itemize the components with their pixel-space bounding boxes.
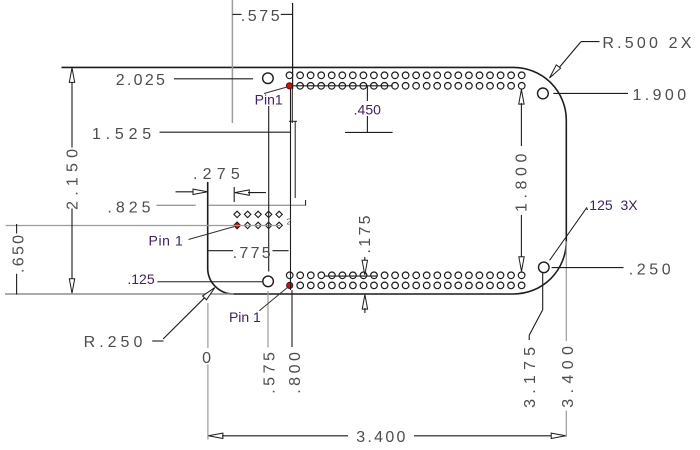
grid Pin 1 label and leader bbox=[149, 227, 234, 249]
svg-text:.825: .825 bbox=[107, 200, 154, 217]
gray extension line y=225.5 (.650 top, grid row2) bbox=[6, 225, 280, 227]
mounting hole bottom-right (.250) bbox=[539, 262, 550, 273]
svg-text:2.025: 2.025 bbox=[116, 72, 168, 89]
label .250 with leader bbox=[552, 261, 675, 278]
svg-text:.575: .575 bbox=[261, 349, 278, 394]
svg-text:3.400: 3.400 bbox=[560, 341, 577, 408]
svg-text:3.175: 3.175 bbox=[522, 342, 539, 408]
dimension 3.400 bottom bbox=[208, 429, 565, 446]
board outline with R.500 right corners and R.250 bottom-left corner bbox=[5, 67, 566, 294]
gray extension line x=208 (origin 0) bbox=[207, 303, 209, 440]
svg-text:.775: .775 bbox=[233, 245, 273, 262]
label R.500 2X with leader arrow bbox=[550, 35, 695, 78]
dimension .175 bbox=[325, 213, 378, 313]
svg-text:R.500 2X: R.500 2X bbox=[602, 35, 694, 52]
svg-text:.125: .125 bbox=[127, 271, 154, 287]
svg-text:.450: .450 bbox=[354, 102, 381, 118]
svg-text:.175: .175 bbox=[357, 213, 374, 253]
svg-text:.650: .650 bbox=[10, 233, 27, 273]
dimension 2.025 leader bbox=[116, 72, 253, 89]
dimension 1.525 reference line bbox=[92, 126, 393, 143]
svg-text:2.150: 2.150 bbox=[64, 144, 81, 210]
dimension .775 bbox=[209, 245, 289, 262]
svg-text:1.800: 1.800 bbox=[514, 149, 531, 212]
bottom header 2x23 through-holes bbox=[286, 272, 524, 289]
dimension 1.800 bbox=[514, 90, 531, 272]
gray extension line x=232 (top .575 left) bbox=[231, 0, 233, 123]
label R.250 with leader arrow bbox=[84, 288, 215, 351]
grid Pin 1 red diamond bbox=[234, 222, 241, 229]
small 2x5 grid of diamond holes bbox=[234, 211, 282, 228]
mounting hole bottom-left (.125) bbox=[263, 276, 274, 287]
svg-text:3.400: 3.400 bbox=[356, 429, 408, 446]
svg-text:.275: .275 bbox=[193, 166, 245, 183]
mounting hole top-left bbox=[263, 73, 274, 84]
gray extension line y=205 (.825) bbox=[156, 204, 306, 206]
svg-text:.800: .800 bbox=[287, 349, 304, 394]
top header 2x23 through-holes bbox=[286, 72, 525, 89]
dimension .650 bbox=[10, 224, 27, 295]
top header Pin1 label and leader bbox=[255, 87, 287, 272]
label .125 3X with leader bbox=[550, 197, 639, 260]
svg-text:Pin1: Pin1 bbox=[255, 91, 283, 107]
dimension .450 bbox=[293, 86, 393, 133]
dimension .275 bbox=[176, 166, 266, 202]
bottom header Pin 1 label and leader bbox=[229, 287, 288, 325]
dimension .575 top bbox=[232, 3, 292, 89]
label .125 bottom-left with leader bbox=[127, 271, 262, 287]
svg-text:R.250: R.250 bbox=[84, 334, 147, 351]
svg-text:Pin 1: Pin 1 bbox=[149, 233, 184, 249]
svg-text:.575: .575 bbox=[241, 8, 283, 25]
top header Pin1 red marker bbox=[286, 83, 292, 89]
dimension 2.150 vertical bbox=[64, 68, 81, 293]
extension line x=290.5 from top Pin1 to bottom (.800) bbox=[291, 89, 293, 347]
svg-text:.125 3X: .125 3X bbox=[585, 197, 638, 213]
svg-text:1.525: 1.525 bbox=[92, 126, 156, 143]
svg-text:1.900: 1.900 bbox=[632, 87, 689, 104]
svg-text:Pin 1: Pin 1 bbox=[229, 309, 261, 325]
connector pocket outline fragments bbox=[289, 89, 306, 205]
bottom header Pin 1 red marker bbox=[287, 282, 293, 288]
gray extension line x=268 (.575 bottom) bbox=[267, 291, 269, 348]
gray extension line x=566.3 (3.400 right) bbox=[565, 241, 567, 437]
label 1.900 with leader bbox=[553, 87, 689, 104]
svg-text:0: 0 bbox=[202, 350, 213, 367]
dimension 3.175 with leader bbox=[522, 273, 543, 408]
mounting hole top-right (1.900) bbox=[538, 88, 549, 99]
svg-text:2: 2 bbox=[287, 217, 292, 227]
svg-text:.250: .250 bbox=[629, 261, 675, 278]
